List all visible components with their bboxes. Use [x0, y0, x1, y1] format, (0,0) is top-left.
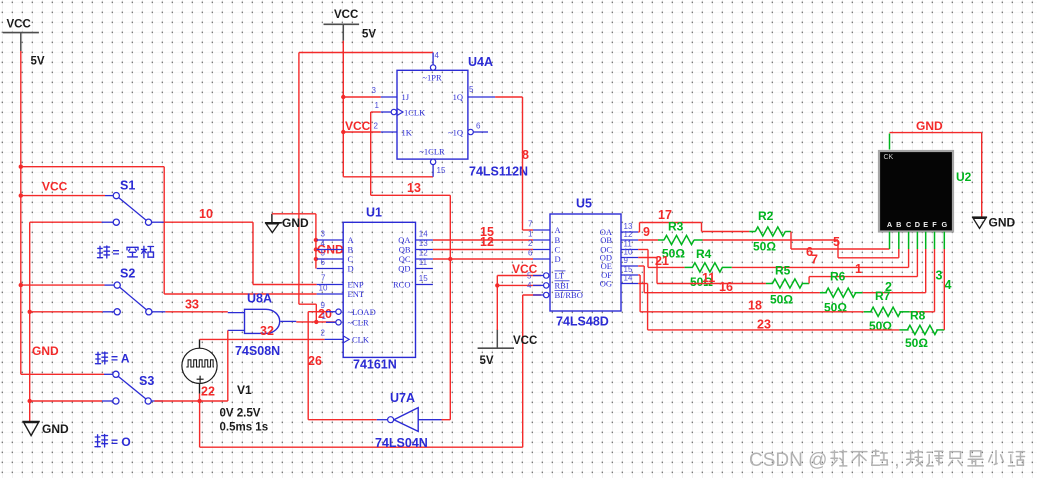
svg-text:1J: 1J: [402, 92, 410, 102]
wire VCC to CLR pin15: [343, 176, 433, 178]
svg-text:12: 12: [480, 235, 494, 249]
wire net22 bottom run: [200, 446, 523, 448]
U5 pin OF stub: [621, 274, 639, 276]
wire net 10 to ENP: [253, 284, 317, 286]
resistor R7: [871, 307, 901, 316]
wire VCC to S2 top: [21, 284, 105, 286]
svg-text:GND: GND: [282, 216, 309, 230]
wire net15 QA to U5 B: [433, 239, 533, 241]
power symbol VCC top-left: [3, 32, 39, 34]
svg-text:QB: QB: [399, 245, 411, 255]
wire gnd to ABCD: [272, 213, 316, 215]
wire net22 up to BI/RBO: [522, 295, 524, 447]
ground symbol middle: [271, 214, 273, 223]
U1 ENP stub: [317, 284, 344, 286]
S3 pole top: [113, 371, 119, 377]
svg-text:~CLR: ~CLR: [348, 318, 369, 328]
U1 CLK stub: [325, 338, 344, 340]
svg-text:CLK: CLK: [352, 335, 370, 345]
display CK to GND wire: [889, 134, 891, 150]
svg-text:1K: 1K: [402, 127, 413, 137]
svg-text:8: 8: [522, 148, 529, 162]
wire net20 top horizontal: [299, 52, 433, 54]
svg-text:D: D: [348, 264, 354, 274]
R6 right lead: [855, 292, 863, 294]
S2 right lead: [152, 311, 165, 313]
junction VCC RBI: [495, 283, 499, 287]
S3 throw: [145, 398, 151, 404]
svg-text:QD: QD: [398, 264, 410, 274]
R2 right lead: [785, 231, 791, 233]
svg-text:B: B: [348, 245, 354, 255]
wire VCC to RBI: [497, 284, 541, 286]
svg-text:4: 4: [435, 51, 440, 60]
wire to U1 ENT pin 10: [164, 293, 317, 295]
resistor R8: [907, 325, 937, 334]
wire net 10 vertical: [252, 222, 254, 284]
svg-text:9: 9: [643, 225, 650, 239]
U4A pin6 stub ~1Q: [473, 131, 488, 133]
S1 pole top: [113, 193, 119, 199]
svg-text:BI/RBO: BI/RBO: [555, 290, 583, 300]
wire net 26 vertical: [307, 312, 309, 420]
wire net22 to S3 throw: [154, 400, 227, 402]
svg-text:6: 6: [476, 122, 481, 131]
svg-text:ENT: ENT: [348, 289, 365, 299]
wire VCC to 1K: [343, 131, 381, 133]
R2 left lead: [749, 231, 755, 233]
svg-text:G: G: [941, 220, 947, 229]
U5 74LS48D box: [550, 214, 621, 311]
U1 pin QB stub: [416, 249, 433, 251]
svg-text:14: 14: [419, 229, 428, 238]
svg-text:18: 18: [748, 299, 762, 313]
svg-text:1: 1: [528, 229, 533, 238]
svg-text:RBI: RBI: [555, 281, 569, 291]
S1 throw: [145, 219, 151, 225]
svg-text:VCC: VCC: [512, 262, 538, 276]
svg-text:LT: LT: [555, 271, 565, 281]
wire net22 down: [199, 401, 201, 447]
svg-text:S2: S2: [120, 267, 135, 281]
svg-text:S1: S1: [120, 179, 135, 193]
svg-text:= O: = O: [111, 435, 131, 449]
R7 right lead: [899, 311, 909, 313]
S2 blade: [120, 287, 147, 309]
svg-text:E: E: [923, 220, 928, 229]
svg-text:B: B: [555, 235, 561, 245]
wire net2 to display E: [863, 292, 926, 294]
U1 pin QC stub: [416, 258, 433, 260]
U1 RCO stub: [416, 284, 433, 286]
svg-text:R4: R4: [696, 247, 712, 261]
key label jian = A: [96, 352, 108, 364]
svg-text:QA: QA: [398, 235, 411, 245]
S1 right lead: [152, 221, 164, 223]
U5 pin OD stub: [621, 257, 639, 259]
wire VCC U4A vertical: [342, 41, 344, 177]
svg-text:5: 5: [833, 235, 840, 249]
wire VCC to 1J: [343, 96, 381, 98]
wire net8 from 1Q: [495, 96, 522, 98]
S3 blade: [118, 377, 145, 399]
U1 pin QA stub: [416, 239, 433, 241]
svg-text:B: B: [896, 220, 901, 229]
wire VCC to ENT horizontal: [21, 166, 164, 168]
wire net5 to display A: [791, 248, 890, 250]
junction GND-S3: [28, 399, 32, 403]
wire net6 down: [837, 240, 839, 258]
R5 left lead: [766, 283, 773, 285]
power symbol VCC bottom-middle: [478, 347, 514, 349]
svg-text:U4A: U4A: [468, 55, 493, 69]
S1 blade: [119, 198, 146, 220]
svg-text:~1CLR: ~1CLR: [419, 146, 445, 156]
svg-text:5V: 5V: [362, 29, 376, 41]
svg-text:=: =: [113, 246, 120, 260]
U1 74161N box: [343, 222, 415, 357]
svg-text:13: 13: [419, 239, 428, 248]
svg-text:,: ,: [894, 450, 899, 471]
svg-text:~1PR: ~1PR: [422, 73, 442, 83]
svg-text:33: 33: [185, 298, 199, 312]
svg-text:U8A: U8A: [247, 292, 272, 306]
R3 right lead: [694, 239, 703, 241]
svg-text:2: 2: [528, 239, 533, 248]
wire net7 to display C: [732, 266, 909, 268]
svg-text:C: C: [555, 245, 561, 255]
U8A output stub: [281, 320, 297, 322]
svg-text:23: 23: [757, 318, 771, 332]
svg-text:5: 5: [527, 271, 532, 280]
AND gate U8A body: [245, 309, 280, 333]
junction VCC-ENT: [19, 165, 23, 169]
S2 throw: [146, 309, 152, 315]
svg-text:VCC: VCC: [513, 335, 537, 347]
wire net13 to 1CLK: [371, 111, 381, 113]
svg-text:3: 3: [372, 86, 377, 95]
R4 right lead: [722, 266, 732, 268]
svg-text:OG: OG: [600, 279, 612, 289]
wire net17 OA to R2: [638, 231, 639, 233]
wire net18 OF to R7: [638, 274, 640, 276]
svg-text:C: C: [906, 220, 912, 229]
svg-text:6: 6: [321, 258, 326, 267]
svg-text:CSDN @: CSDN @: [749, 450, 827, 471]
svg-text:9: 9: [624, 256, 629, 265]
R6 left lead: [820, 292, 827, 294]
svg-text:74LS112N: 74LS112N: [469, 165, 528, 179]
wire net 10 horizontal: [164, 221, 253, 223]
svg-text:22: 22: [201, 385, 215, 399]
svg-text:5: 5: [321, 248, 326, 257]
svg-text:U2: U2: [956, 170, 972, 184]
wire net16 OD to R5: [638, 257, 657, 259]
svg-text:14: 14: [624, 274, 633, 283]
junction GND-S2: [28, 310, 32, 314]
svg-text:R5: R5: [775, 264, 791, 278]
wire net 26 to LOAD: [308, 311, 326, 313]
U7A output stub: [377, 419, 388, 421]
svg-text:D: D: [915, 220, 920, 229]
S2 top lead: [105, 284, 115, 286]
wire S1 lower to GND net: [30, 221, 102, 223]
V1 top stem: [199, 339, 201, 348]
wire U7A input: [442, 419, 451, 421]
wire GND to S3 lower: [30, 400, 102, 402]
wire GND left vertical: [29, 222, 31, 421]
svg-text:50Ω: 50Ω: [770, 293, 793, 307]
svg-text:15: 15: [437, 166, 446, 175]
U5 pin LT stub: [533, 275, 544, 277]
U1 ENT stub: [317, 293, 344, 295]
svg-text:32: 32: [260, 324, 274, 338]
junction B: [314, 247, 318, 251]
wire QC to U5 D: [433, 258, 533, 260]
svg-text:2: 2: [321, 329, 326, 338]
wire to R2: [702, 231, 750, 233]
inverter U7A body: [394, 408, 418, 432]
seven segment display U2: [879, 151, 953, 232]
U4A pin1 stub: [381, 111, 391, 113]
svg-text:7: 7: [811, 253, 818, 267]
svg-text:R3: R3: [668, 220, 684, 234]
V1 bottom stem: [199, 383, 201, 393]
svg-text:4: 4: [945, 278, 952, 292]
svg-text:V1: V1: [237, 383, 252, 397]
junction C: [314, 257, 318, 261]
wire net21 OC to R4: [638, 249, 648, 251]
U5 pin D stub: [533, 258, 550, 260]
svg-text:OB: OB: [600, 235, 612, 245]
S3 bottom lead: [102, 400, 113, 402]
svg-text:VCC: VCC: [334, 9, 358, 21]
wire net5 down: [790, 232, 792, 250]
junction net 22: [197, 399, 201, 403]
svg-text:2: 2: [374, 122, 379, 131]
svg-text:GND: GND: [32, 344, 59, 358]
R7 left lead: [864, 311, 872, 313]
R4 left lead: [685, 266, 693, 268]
wire OE to R6: [638, 265, 644, 267]
U8A input B stub: [228, 329, 245, 331]
svg-text:3: 3: [321, 229, 326, 238]
svg-text:5V: 5V: [480, 355, 494, 367]
svg-text:4: 4: [527, 281, 532, 290]
resistor R5: [772, 279, 802, 288]
junction VCC 1J: [341, 95, 345, 99]
wire ENT net vertical: [163, 167, 165, 294]
junction VCC-S1: [19, 193, 23, 197]
U4A 74LS112N box: [397, 70, 468, 159]
wire net 26 from U7A output: [308, 419, 377, 421]
U4A pin4 stub: [432, 53, 434, 65]
U1 pin A stub: [317, 239, 344, 241]
S2 pole top: [114, 282, 120, 288]
wire net13 vertical: [370, 112, 372, 195]
svg-text:74LS48D: 74LS48D: [556, 315, 609, 329]
svg-text:~LOAD: ~LOAD: [348, 307, 376, 317]
svg-text:A: A: [555, 225, 562, 235]
U5 pin C stub: [533, 249, 550, 251]
S1 bottom lead: [102, 221, 114, 223]
svg-text:R6: R6: [830, 270, 846, 284]
svg-text:1CLK: 1CLK: [404, 107, 426, 117]
U5 pin OE stub: [621, 265, 639, 267]
U5 pin OB stub: [621, 239, 639, 241]
U5 pin B stub: [533, 239, 550, 241]
svg-text:GND: GND: [42, 422, 69, 436]
svg-text:~1Q: ~1Q: [448, 127, 463, 137]
power symbol VCC top-middle: [324, 23, 360, 25]
display pin stubs: [889, 232, 891, 249]
wire net6 to display B: [838, 257, 899, 259]
wire VCC to S3 top: [21, 373, 104, 375]
U5 pin OC stub: [621, 249, 639, 251]
S3 pole bottom: [113, 398, 119, 404]
junction VCC-S2: [19, 283, 23, 287]
ground symbol bottom-left: [22, 421, 39, 423]
svg-text:10: 10: [199, 207, 213, 221]
svg-text:C: C: [348, 254, 354, 264]
svg-text:ENP: ENP: [348, 280, 364, 290]
wire net23 OG to R8: [638, 283, 647, 285]
wire GND to S2 lower: [30, 311, 103, 313]
U1 pin QD stub: [416, 268, 433, 270]
svg-text:6: 6: [528, 248, 533, 257]
S1 top lead: [105, 195, 113, 197]
U1 CLR stub: [326, 321, 336, 323]
U1 pin C stub: [317, 258, 344, 260]
wire net22 to BI/RBO bubble: [523, 294, 541, 296]
S1 pole bottom: [113, 219, 119, 225]
svg-text:5V: 5V: [31, 56, 45, 68]
svg-text:GND: GND: [916, 119, 943, 133]
U5 pin OG stub: [621, 283, 639, 285]
key label jian = O: [95, 435, 108, 448]
R8 left lead: [899, 329, 908, 331]
svg-text:0.5ms 1s: 0.5ms 1s: [220, 422, 269, 434]
svg-text:1Q: 1Q: [453, 92, 463, 102]
svg-text:U5: U5: [576, 197, 592, 211]
svg-text:7: 7: [528, 219, 533, 228]
S3 right lead: [151, 400, 163, 402]
R3 left lead: [658, 239, 664, 241]
svg-text:5: 5: [469, 85, 474, 94]
wire net12 QB to U5 C: [433, 249, 533, 251]
svg-text:74LS04N: 74LS04N: [375, 436, 428, 450]
wire net20 down to CLR: [315, 304, 317, 322]
wire net13 horizontal: [371, 194, 451, 196]
svg-text:10: 10: [319, 284, 328, 293]
U5 pin BI/RBO stub: [533, 294, 544, 296]
wire net9 OB to R3: [638, 239, 658, 241]
svg-text:QC: QC: [399, 254, 411, 264]
display pin drop wires: [898, 249, 900, 258]
svg-text:15: 15: [419, 274, 428, 283]
wire net20 vertical: [298, 53, 300, 305]
svg-text:D: D: [555, 254, 561, 264]
svg-text:9: 9: [321, 301, 326, 310]
R5 right lead: [802, 283, 809, 285]
R8 right lead: [936, 329, 944, 331]
wire net1 to display D: [809, 276, 917, 278]
U1 pin B stub: [317, 249, 344, 251]
wire net8 to U5 A: [523, 229, 534, 231]
U4A pin5 stub 1Q: [468, 96, 495, 98]
key label jian = kongge: [98, 246, 110, 258]
U7A input stub: [418, 419, 441, 421]
svg-text:16: 16: [719, 280, 733, 294]
svg-text:12: 12: [419, 248, 428, 257]
svg-text:26: 26: [308, 354, 322, 368]
resistor R6: [826, 288, 856, 297]
svg-text:50Ω: 50Ω: [905, 336, 928, 350]
svg-text:VCC: VCC: [345, 119, 371, 133]
wire net8 vertical: [522, 97, 524, 230]
svg-text:U7A: U7A: [390, 391, 415, 405]
wire V1 to CLK: [200, 338, 325, 340]
wire net13 QC vertical: [449, 195, 451, 419]
svg-text:GND: GND: [989, 216, 1016, 230]
svg-text:4: 4: [321, 239, 326, 248]
svg-text:R7: R7: [875, 289, 891, 303]
U1 pin D stub: [317, 268, 344, 270]
wire net17 jog down: [701, 223, 703, 232]
S2 pole bottom: [114, 309, 120, 315]
svg-text:50Ω: 50Ω: [753, 240, 776, 254]
svg-text:R8: R8: [910, 309, 926, 323]
wire gate output to CLR: [296, 321, 336, 323]
svg-text:50Ω: 50Ω: [869, 319, 892, 333]
svg-text:F: F: [932, 220, 937, 229]
svg-text:= A: = A: [111, 352, 130, 366]
U8A input A stub: [228, 312, 245, 314]
svg-text:0V 2.5V: 0V 2.5V: [220, 408, 261, 420]
U4A pin15 stub: [432, 165, 434, 177]
wire net20 jog: [299, 303, 316, 305]
U4A pin3 stub: [381, 96, 397, 98]
U1 LOAD stub: [326, 311, 336, 313]
junction net 20: [314, 320, 318, 324]
wire VCC to LT/RBI: [496, 276, 498, 331]
U5 pin OA stub: [621, 231, 639, 233]
svg-text:CK: CK: [884, 154, 894, 161]
svg-text:74S08N: 74S08N: [235, 344, 280, 358]
wire net 33: [165, 311, 227, 313]
U7A output bubble: [388, 417, 394, 423]
svg-text:1: 1: [322, 312, 327, 321]
junction VCC 1K: [341, 130, 345, 134]
svg-text:A: A: [887, 220, 893, 229]
svg-text:S3: S3: [139, 374, 154, 388]
wire VCC to LT: [497, 275, 541, 277]
resistor R2: [755, 227, 785, 236]
wire gnd vertical to ABCD: [315, 214, 317, 269]
svg-text:U1: U1: [366, 206, 382, 220]
resistor R4: [692, 263, 722, 272]
wire VCC to S1 common: [21, 195, 105, 197]
svg-text:12: 12: [624, 230, 633, 239]
svg-text:3: 3: [936, 269, 943, 283]
svg-text:VCC: VCC: [7, 19, 31, 31]
svg-text:R2: R2: [758, 209, 774, 223]
junction QC net13: [448, 257, 452, 261]
clock source V1: [182, 348, 217, 383]
svg-text:7: 7: [321, 274, 326, 283]
wire net6 horizontal: [703, 239, 839, 241]
wire net20 load stub: [316, 311, 326, 313]
